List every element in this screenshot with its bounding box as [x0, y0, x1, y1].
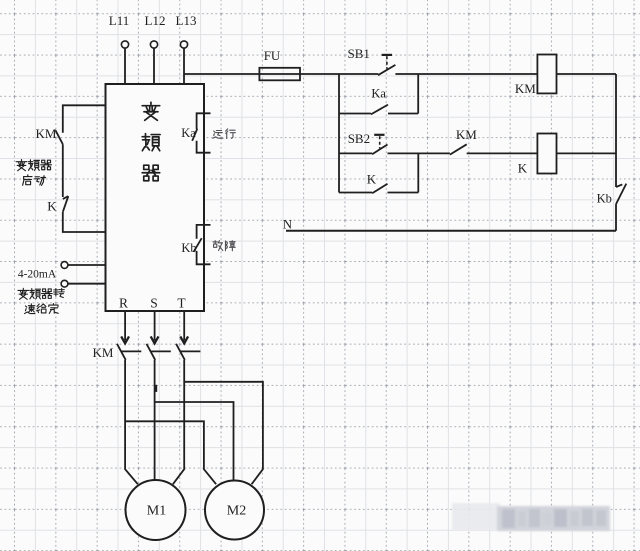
wire phase 1 from inverter [124, 311, 126, 341]
svg-text:4-20mA: 4-20mA [18, 269, 57, 281]
arrow phase 1 [121, 336, 129, 343]
contact KM aux (NO interlock) [450, 144, 467, 154]
svg-text:L12: L12 [145, 13, 166, 28]
wire K branch right [388, 192, 419, 194]
label 变频器 (启动) [16, 160, 51, 171]
inverter U1 box 变频器 [106, 84, 205, 311]
wire lower analog terminal to inverter [68, 283, 106, 285]
wire right rail of SB1/Ka parallel [417, 74, 419, 114]
svg-text:Ka: Ka [181, 126, 196, 140]
wire L13 to inverter [183, 48, 185, 84]
contact K (hold-in, NO) [372, 184, 387, 194]
wire inverter to KM contact (top of start loop) [63, 105, 106, 132]
wire bottom of start loop to inverter [63, 212, 106, 232]
svg-text:K: K [47, 199, 57, 214]
contact KM main bar 3 [180, 350, 200, 352]
wire right rail lower to N [615, 204, 617, 231]
contact Ka (hold-in, NO) [371, 105, 388, 115]
svg-text:KM: KM [36, 126, 57, 141]
svg-text:KM: KM [456, 127, 477, 142]
watermark (blurred) [452, 503, 610, 531]
wire Ka branch left [339, 113, 371, 115]
wire Ka branch right [388, 113, 418, 115]
contact KM main blade 2 [147, 344, 156, 360]
contact KM main bar 2 [151, 350, 171, 352]
node 4-20mA terminal lower [61, 280, 68, 287]
wire phase 3 from inverter [183, 311, 185, 341]
svg-text:K: K [518, 161, 528, 176]
svg-text:KM: KM [93, 345, 114, 360]
wire between KM and K contacts [62, 144, 64, 197]
svg-text:R: R [119, 296, 128, 311]
pushbutton SB1 (start) [378, 55, 395, 75]
svg-text:KM: KM [515, 81, 536, 96]
arrow phase 2 [151, 336, 159, 343]
svg-text:M1: M1 [147, 504, 166, 519]
wire SB2 to KM aux contact [388, 152, 450, 154]
wire phase 2 from inverter [154, 311, 156, 341]
wire K branch left [339, 192, 372, 194]
node L13 terminal [176, 13, 197, 48]
wire left control rail [338, 74, 340, 193]
label 启动 [23, 175, 46, 185]
wire phase3 to M1 right terminal [173, 360, 184, 484]
contact K (NC) [63, 196, 69, 212]
wire tap phase3 to M2 right terminal [184, 382, 263, 484]
svg-text:Kb: Kb [181, 241, 196, 255]
node L12 terminal [145, 13, 166, 48]
wire tap phase1 to M2 left terminal [125, 421, 216, 484]
contact KM (start, NO) [55, 130, 62, 144]
contact Ka (inverter run output) [192, 113, 210, 152]
svg-text:SB1: SB1 [347, 46, 369, 61]
svg-text:Kb: Kb [597, 192, 612, 206]
arrow phase 3 [180, 336, 188, 343]
motor M1 [126, 480, 186, 540]
svg-text:SB2: SB2 [348, 131, 370, 146]
wire right rail of SB2/K parallel [417, 153, 419, 192]
svg-text:Ka: Ka [371, 87, 386, 101]
fuse FU [259, 68, 300, 81]
svg-text:K: K [367, 172, 377, 187]
svg-text:T: T [177, 296, 186, 311]
node L11 terminal [109, 13, 129, 48]
contact KM main blade 3 [176, 344, 185, 360]
label 故障 [213, 241, 235, 251]
wire phase2 to M1 centre terminal [154, 360, 156, 481]
wire KM aux to K coil [467, 152, 616, 154]
contact KM main bar 1 [121, 350, 141, 352]
wire upper analog terminal to inverter [68, 264, 106, 266]
svg-text:N: N [283, 217, 293, 232]
wire tap phase2 to M2 centre terminal [155, 402, 234, 480]
pushbutton SB2 (start M2) [339, 135, 388, 154]
svg-text:L11: L11 [109, 13, 129, 28]
wire L12 to inverter [153, 48, 155, 84]
coil KM [537, 55, 556, 94]
svg-text:L13: L13 [176, 13, 197, 28]
label 变频器转 [18, 288, 64, 299]
node 4-20mA terminal upper [61, 262, 68, 269]
wire phase1 to M1 left terminal [125, 360, 138, 484]
coil K [537, 134, 556, 174]
wire SB1 to KM coil [395, 73, 616, 75]
label 速给定 [24, 304, 58, 314]
contact Kb (inverter fault output) [194, 225, 211, 264]
svg-text:FU: FU [264, 48, 281, 63]
svg-text:M2: M2 [227, 504, 246, 519]
wire L13 tap to SB1 [184, 73, 378, 75]
junction blob on phase2 [154, 385, 157, 392]
contact KM main blade 1 [117, 344, 126, 360]
motor M2 [205, 481, 264, 540]
label 运行 [213, 129, 236, 139]
contact Kb (fault, NC) [616, 184, 626, 205]
svg-text:S: S [150, 296, 158, 311]
wire L11 to inverter [124, 48, 126, 84]
wire neutral N [286, 230, 616, 232]
wire right rail upper [615, 74, 617, 187]
